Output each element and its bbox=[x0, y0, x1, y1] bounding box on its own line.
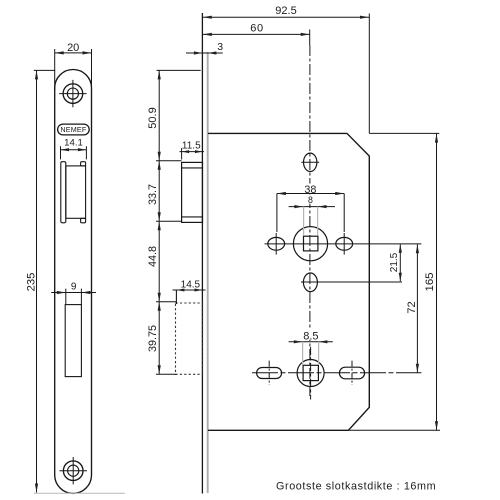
svg-text:33.7: 33.7 bbox=[147, 184, 159, 205]
dim 14.1 arrows bbox=[61, 148, 87, 151]
dim 14.5 lines bbox=[173, 290, 206, 304]
dim 8 arrows bbox=[294, 205, 326, 208]
dim 8 label backing bbox=[307, 196, 315, 204]
dim 38 arrows bbox=[277, 192, 344, 195]
dim 11.5 lines bbox=[180, 148, 205, 160]
dim 8.5 extension lines (gray) bbox=[303, 342, 319, 365]
dim 92.5 arrows bbox=[203, 16, 369, 19]
deadbolt slot front view bbox=[65, 305, 81, 377]
svg-text:11.5: 11.5 bbox=[182, 141, 201, 152]
dim 38 label backing bbox=[304, 184, 318, 194]
svg-text:Grootste slotkastdikte : 16: Grootste slotkastdikte : 16mm bbox=[276, 480, 436, 492]
dim 235 extension top bbox=[34, 69, 55, 71]
svg-text:14.5: 14.5 bbox=[181, 279, 201, 290]
bottom-right slot crosshair bbox=[351, 361, 353, 385]
dim 9 arrows bbox=[57, 291, 91, 294]
dim 8.5 arrows bbox=[294, 340, 328, 343]
latch bolt front view: bottom-right tab bbox=[81, 218, 86, 223]
screw hole bottom (inner circle) bbox=[68, 465, 79, 476]
svg-text:3: 3 bbox=[217, 41, 223, 53]
lock body outline bbox=[208, 133, 369, 430]
latch bolt front view: left bar bbox=[61, 162, 66, 223]
mid oval hole (below follower) bbox=[303, 273, 317, 292]
dim 235 arrows bbox=[35, 70, 38, 492]
left fixing hole bbox=[268, 237, 285, 250]
svg-text:165: 165 bbox=[424, 272, 436, 291]
dim 11.5 arrows bbox=[182, 150, 203, 153]
NEMEF logo oval bbox=[58, 124, 90, 135]
follower square (8mm) bbox=[304, 236, 318, 251]
right fixing hole crosshair bbox=[343, 233, 345, 255]
dim 21.5 line bbox=[399, 244, 401, 281]
dim 60 line bbox=[203, 33, 310, 35]
mid oval crosshair + 21.5 extension line bbox=[301, 281, 402, 283]
dim 21.5 arrows bbox=[399, 244, 402, 281]
screw hole top (outer circle) bbox=[63, 84, 83, 104]
body top edge extension to 165 dim bbox=[369, 132, 439, 134]
dim 38 lines bbox=[277, 194, 344, 233]
bottom-left slot crosshair bbox=[268, 361, 270, 385]
dim 72 arrows bbox=[416, 244, 419, 373]
top oval hole (cylinder screw) bbox=[304, 153, 317, 171]
right edge extension up to 92.5 dim bbox=[368, 14, 370, 134]
deadbolt side view (retracted, dashed) bbox=[176, 303, 203, 374]
dim 9 lines bbox=[51, 289, 96, 305]
keyhole follower circle (WC) bbox=[297, 360, 324, 387]
svg-text:44.8: 44.8 bbox=[147, 246, 159, 267]
svg-text:50.9: 50.9 bbox=[147, 107, 159, 128]
dim 3 line bbox=[186, 52, 223, 54]
dim chain arrows bbox=[158, 70, 161, 374]
latch side view bevel lines bbox=[182, 168, 203, 217]
follower hub circle bbox=[293, 227, 327, 261]
dim 72 line bbox=[416, 244, 418, 373]
svg-text:92.5: 92.5 bbox=[275, 5, 296, 17]
keyhole square (8.5mm) bbox=[303, 365, 318, 380]
dim 14.1 lines bbox=[61, 146, 87, 159]
faceplate outline (front view, stadium shape) bbox=[55, 70, 92, 494]
dim 3 arrows bbox=[194, 51, 217, 54]
keyhole horizontal centerline / dim extension (72 bottom) bbox=[252, 372, 421, 374]
svg-text:NEMEF: NEMEF bbox=[60, 125, 87, 134]
screw hole top (inner circle) bbox=[67, 88, 78, 99]
svg-text:60: 60 bbox=[250, 22, 263, 34]
side view: faceplate edge black line bbox=[201, 13, 203, 494]
dim 8 line bbox=[289, 206, 335, 208]
dim chain vertical line 50.9/33.7/44.8/39.75 bbox=[158, 70, 160, 374]
dim 8.5 label backing bbox=[302, 330, 320, 340]
left fixing hole crosshair bbox=[275, 233, 277, 255]
dim 60 arrows bbox=[203, 33, 310, 36]
screw hole bottom (outer circle) bbox=[63, 461, 83, 481]
right fixing hole bbox=[336, 237, 353, 250]
latch bolt front view: top-right tab bbox=[81, 162, 86, 166]
latch bolt front view: main body bbox=[66, 166, 86, 218]
dim 8 extension lines (gray) bbox=[304, 207, 318, 236]
follower horizontal centerline / dim extension (21.5,72 top) bbox=[265, 243, 422, 245]
body bottom edge extension to 165 dim bbox=[348, 429, 440, 431]
dim 20 lines bbox=[55, 49, 92, 90]
dim 14.5 arrows bbox=[176, 289, 202, 292]
svg-text:39.75: 39.75 bbox=[147, 325, 159, 352]
svg-text:8: 8 bbox=[308, 195, 313, 205]
screw hole bottom crosshair bbox=[60, 457, 88, 484]
dim 20 arrows bbox=[55, 51, 92, 54]
left dim chain extension ticks bbox=[156, 70, 201, 374]
keyhole vertical crosshair bbox=[310, 347, 312, 400]
vertical centerline through cylinder axis bbox=[309, 30, 311, 46]
dim 235 line bbox=[36, 70, 38, 492]
svg-text:21.5: 21.5 bbox=[389, 252, 400, 272]
dim 8.5 line bbox=[289, 341, 333, 343]
top oval crosshair bbox=[301, 161, 319, 163]
dim 92.5 line bbox=[203, 16, 369, 18]
svg-text:20: 20 bbox=[67, 42, 79, 54]
bottom-left slot (obround) bbox=[257, 368, 282, 379]
bottom-right slot (obround) bbox=[339, 367, 364, 379]
dim 165 arrows bbox=[435, 134, 438, 431]
svg-text:235: 235 bbox=[26, 273, 38, 292]
screw hole top crosshair bbox=[59, 80, 86, 107]
svg-text:9: 9 bbox=[71, 282, 77, 293]
svg-text:72: 72 bbox=[406, 301, 418, 313]
svg-text:8.5: 8.5 bbox=[303, 330, 318, 342]
svg-text:14.1: 14.1 bbox=[64, 138, 83, 149]
side view: faceplate back edge gray line bbox=[207, 52, 209, 493]
dim 165 line bbox=[436, 134, 438, 431]
latch side view body bbox=[182, 162, 203, 222]
dim 235 extension bottom bbox=[34, 492, 125, 494]
